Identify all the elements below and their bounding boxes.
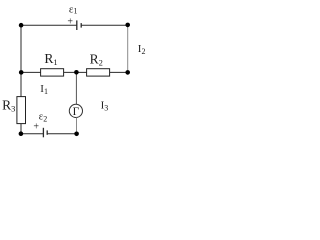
wire left rail upper <box>20 25 22 96</box>
wire bottom left segment <box>21 133 43 135</box>
node middle center <box>74 70 79 75</box>
resistor R3 <box>17 97 26 124</box>
node top left <box>19 23 24 28</box>
node top right <box>125 23 130 28</box>
battery E2 short plate <box>46 130 48 134</box>
wire middle segment a <box>21 71 41 73</box>
wire middle segment c <box>110 71 128 73</box>
wire galvanometer branch lower <box>76 118 78 134</box>
wire top right segment <box>81 24 128 26</box>
svg-text:+: + <box>67 17 73 28</box>
node middle left <box>19 70 24 75</box>
wire bottom right segment <box>47 133 76 135</box>
resistor R1 <box>41 69 64 76</box>
wire right rail <box>127 25 129 72</box>
battery E2 long plate <box>42 128 44 138</box>
svg-text:Г: Г <box>73 106 80 118</box>
wire middle segment b <box>64 71 87 73</box>
wire galvanometer branch upper <box>75 72 77 104</box>
resistor R2 <box>87 69 110 76</box>
wire left rail lower <box>20 124 22 134</box>
node bottom left <box>19 131 24 136</box>
wire top left segment <box>21 24 77 26</box>
galvanometer G body <box>69 104 82 117</box>
battery E1 short plate <box>80 23 82 28</box>
node bottom center <box>74 132 79 137</box>
node middle right <box>125 70 130 75</box>
svg-text:+: + <box>33 122 39 133</box>
battery E1 long plate <box>76 20 78 30</box>
